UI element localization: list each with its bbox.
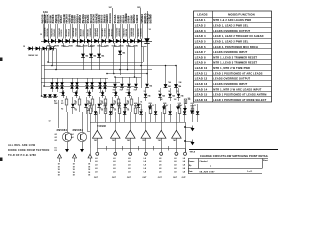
svg-text:AB2: AB2 bbox=[134, 102, 137, 105]
svg-text:6G8: 6G8 bbox=[178, 106, 181, 108]
svg-text:LEAD 4: LEAD 4 bbox=[195, 34, 206, 38]
svg-text:DIODE CODE FROM TEXTRON: DIODE CODE FROM TEXTRON bbox=[8, 148, 49, 152]
svg-text:MTR 1, MTR 2 W ARC LEADS INPUT: MTR 1, MTR 2 W ARC LEADS INPUT bbox=[213, 87, 261, 91]
svg-text:LEAD 6: LEAD 6 bbox=[195, 45, 206, 49]
svg-text:22M: 22M bbox=[104, 103, 108, 105]
svg-text:18: 18 bbox=[58, 172, 60, 174]
svg-text:LEADS OVERRIDE INPUT: LEADS OVERRIDE INPUT bbox=[213, 50, 247, 54]
svg-text:18: 18 bbox=[58, 169, 60, 171]
svg-text:744: 744 bbox=[181, 95, 184, 98]
svg-text:R2: R2 bbox=[114, 109, 116, 111]
svg-text:LEAD 15: LEAD 15 bbox=[195, 93, 208, 97]
svg-text:18: 18 bbox=[58, 166, 60, 168]
svg-text:0096DA: 0096DA bbox=[67, 28, 70, 36]
svg-text:12: 12 bbox=[23, 46, 25, 48]
svg-text:LEADS OVERRIDE OUTPUT: LEADS OVERRIDE OUTPUT bbox=[213, 29, 250, 33]
svg-text:LEAD 10: LEAD 10 bbox=[195, 66, 208, 70]
svg-text:1N4148 744: 1N4148 744 bbox=[28, 54, 38, 57]
svg-text:744: 744 bbox=[168, 81, 171, 84]
svg-text:KAM894: KAM894 bbox=[89, 27, 92, 36]
svg-text:LEAD 1 POSITIONED AT MODE SELE: LEAD 1 POSITIONED AT MODE SELECT bbox=[213, 98, 266, 102]
svg-text:744: 744 bbox=[162, 95, 165, 98]
svg-text:RMD68B: RMD68B bbox=[76, 27, 78, 36]
svg-text:85M: 85M bbox=[149, 103, 153, 105]
svg-text:K2: K2 bbox=[100, 103, 102, 105]
svg-text:206265: 206265 bbox=[83, 29, 85, 37]
svg-text:18: 18 bbox=[88, 164, 90, 166]
svg-text:LEAD 5: LEAD 5 bbox=[195, 39, 206, 43]
svg-text:K2: K2 bbox=[74, 103, 76, 105]
svg-text:ALL RES. ARE 1/4W: ALL RES. ARE 1/4W bbox=[8, 143, 36, 147]
svg-text:DMG65R: DMG65R bbox=[133, 27, 135, 36]
svg-text:89GA52: 89GA52 bbox=[53, 28, 56, 37]
svg-text:744: 744 bbox=[168, 85, 171, 88]
svg-text:ANNA: ANNA bbox=[76, 44, 82, 47]
svg-text:MTR 1, LEAD 2 TRIMMER RESET: MTR 1, LEAD 2 TRIMMER RESET bbox=[213, 55, 257, 59]
svg-text:8K9K5A: 8K9K5A bbox=[46, 28, 49, 36]
svg-text:12: 12 bbox=[40, 34, 42, 36]
svg-text:744: 744 bbox=[149, 85, 152, 88]
svg-text:18: 18 bbox=[88, 172, 90, 174]
svg-text:MTR 1, LEAD 3 TRIMMER RESET: MTR 1, LEAD 3 TRIMMER RESET bbox=[213, 61, 257, 65]
svg-text:R2: R2 bbox=[100, 109, 102, 111]
svg-text:08-JUN 1997: 08-JUN 1997 bbox=[200, 171, 216, 173]
svg-text:LEAD 11: LEAD 11 bbox=[195, 71, 208, 75]
svg-text:ABR8B0: ABR8B0 bbox=[118, 27, 121, 36]
svg-text:744: 744 bbox=[172, 95, 175, 98]
svg-text:CHARGE CIRCUIT/LOW SWITCHING P: CHARGE CIRCUIT/LOW SWITCHING POINT DETAI… bbox=[200, 154, 269, 158]
svg-text:LEAD 7: LEAD 7 bbox=[195, 50, 206, 54]
svg-text:744: 744 bbox=[93, 55, 96, 58]
svg-text:R2: R2 bbox=[61, 109, 63, 111]
svg-text:4K9G52: 4K9G52 bbox=[111, 28, 114, 37]
svg-text:LEAD 1 POSITIONED AT LEADS ANT: LEAD 1 POSITIONED AT LEADS ANTRM bbox=[213, 93, 266, 97]
svg-text:8M8: 8M8 bbox=[163, 103, 166, 105]
svg-text:18: 18 bbox=[88, 175, 90, 177]
svg-text:Drawn: Drawn bbox=[189, 161, 196, 163]
svg-text:KRA6: KRA6 bbox=[119, 44, 124, 47]
svg-text:0AB60: 0AB60 bbox=[135, 14, 139, 23]
svg-text:744: 744 bbox=[148, 95, 151, 98]
svg-text:LEAD 2: LEAD 2 bbox=[195, 24, 206, 28]
svg-text:18: 18 bbox=[58, 164, 60, 166]
svg-text:LEAD 8: LEAD 8 bbox=[195, 55, 206, 59]
svg-text:2N5064: 2N5064 bbox=[73, 128, 84, 132]
svg-text:K49D: K49D bbox=[104, 44, 109, 47]
svg-text:LEAD 1: LEAD 1 bbox=[195, 18, 206, 22]
svg-text:8KD8AN: 8KD8AN bbox=[103, 28, 106, 37]
svg-text:TITLE: TITLE bbox=[190, 151, 196, 153]
svg-text:45KMA4: 45KMA4 bbox=[96, 27, 99, 36]
svg-text:18: 18 bbox=[73, 164, 75, 166]
svg-text:N89K98: N89K98 bbox=[126, 28, 128, 36]
svg-text:744: 744 bbox=[122, 52, 125, 55]
svg-text:LEADS OVERRIDE INPUT: LEADS OVERRIDE INPUT bbox=[213, 82, 247, 86]
svg-text:4: 4 bbox=[140, 103, 141, 106]
svg-text:0RG: 0RG bbox=[149, 106, 153, 108]
svg-text:18: 18 bbox=[73, 166, 75, 168]
svg-text:MTR 1, MTR 2 W TIME PWR: MTR 1, MTR 2 W TIME PWR bbox=[213, 66, 250, 70]
svg-text:LEAD 9: LEAD 9 bbox=[195, 61, 206, 65]
svg-text:LEAD 14: LEAD 14 bbox=[195, 87, 208, 91]
svg-text:K2: K2 bbox=[55, 150, 57, 152]
svg-text:K2: K2 bbox=[114, 103, 116, 105]
svg-text:4GGGG: 4GGGG bbox=[108, 13, 112, 23]
svg-text:2N5064: 2N5064 bbox=[57, 128, 68, 132]
svg-text:TO-R OF P.C.B. 9788: TO-R OF P.C.B. 9788 bbox=[8, 153, 36, 157]
svg-text:K2: K2 bbox=[61, 103, 63, 105]
svg-text:2M82: 2M82 bbox=[68, 45, 72, 47]
svg-text:1 of 1: 1 of 1 bbox=[247, 171, 253, 173]
svg-text:18: 18 bbox=[88, 169, 90, 171]
svg-text:18: 18 bbox=[73, 169, 75, 171]
svg-text:74C908: 74C908 bbox=[97, 125, 107, 128]
svg-text:LEAD 16: LEAD 16 bbox=[195, 98, 208, 102]
svg-text:AK0: AK0 bbox=[163, 105, 167, 108]
svg-text:A2: A2 bbox=[54, 100, 56, 103]
svg-text:Date: Date bbox=[189, 170, 193, 173]
svg-text:LEAD 12: LEAD 12 bbox=[195, 77, 208, 81]
svg-text:N84: N84 bbox=[104, 105, 107, 108]
svg-text:LEAD 1, LEAD 2 PWR SEL: LEAD 1, LEAD 2 PWR SEL bbox=[213, 24, 248, 28]
svg-text:R2: R2 bbox=[127, 109, 129, 111]
svg-text:8M94: 8M94 bbox=[47, 44, 51, 47]
svg-text:18: 18 bbox=[73, 172, 75, 174]
svg-text:18: 18 bbox=[73, 175, 75, 177]
svg-text:LEAD 4, POSITIONED MUX BRCH: LEAD 4, POSITIONED MUX BRCH bbox=[213, 45, 258, 49]
svg-text:18: 18 bbox=[88, 166, 90, 168]
svg-text:B00M5: B00M5 bbox=[148, 14, 152, 23]
svg-text:LEADS: LEADS bbox=[197, 13, 207, 17]
svg-text:MODE/FUNCTION: MODE/FUNCTION bbox=[228, 13, 255, 17]
svg-text:12: 12 bbox=[49, 121, 51, 123]
svg-text:NK8: NK8 bbox=[191, 106, 195, 108]
svg-text:Checked: Checked bbox=[200, 161, 209, 163]
svg-text:744: 744 bbox=[179, 81, 182, 84]
svg-text:18: 18 bbox=[58, 175, 60, 177]
svg-text:LEAD 1, LEAD 2 PWR SEL: LEAD 1, LEAD 2 PWR SEL bbox=[213, 39, 248, 43]
svg-text:744: 744 bbox=[101, 55, 104, 58]
svg-text:LEAD 1, LEAD 2 TRIGGER XX AHEA: LEAD 1, LEAD 2 TRIGGER XX AHEAD bbox=[213, 34, 263, 38]
svg-text:LEAD 3: LEAD 3 bbox=[195, 29, 206, 33]
svg-text:MTR 1 & 2 ARC LEADS PWR: MTR 1 & 2 ARC LEADS PWR bbox=[213, 18, 251, 22]
svg-text:12A: 12A bbox=[43, 10, 48, 14]
svg-text:744: 744 bbox=[85, 55, 88, 58]
svg-text:744: 744 bbox=[178, 85, 181, 88]
svg-text:40M: 40M bbox=[118, 105, 122, 108]
svg-text:R2: R2 bbox=[74, 109, 76, 111]
svg-text:K2: K2 bbox=[127, 103, 129, 105]
svg-text:288: 288 bbox=[89, 106, 92, 108]
svg-text:M08M8K: M08M8K bbox=[140, 28, 142, 37]
svg-text:Sheet: Sheet bbox=[263, 159, 268, 162]
svg-text:LEADS OVERRIDE OUTPUT: LEADS OVERRIDE OUTPUT bbox=[213, 77, 250, 81]
svg-text:LEAD 13: LEAD 13 bbox=[195, 82, 208, 86]
svg-text:822606: 822606 bbox=[61, 29, 63, 37]
svg-text:LEAD 1 POSITIONED AT ARC LEADS: LEAD 1 POSITIONED AT ARC LEADS bbox=[213, 71, 262, 75]
